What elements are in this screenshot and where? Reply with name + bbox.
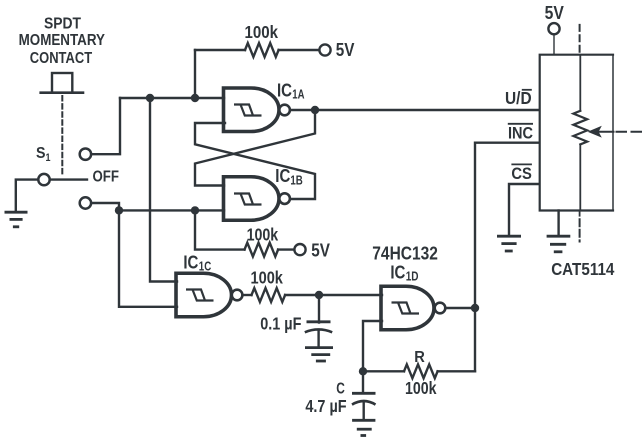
svg-text:IC: IC bbox=[275, 166, 290, 186]
wire IC1D output bbox=[446, 307, 475, 309]
svg-text:1D: 1D bbox=[406, 270, 419, 284]
terminal 5V CAT5114 bbox=[548, 23, 559, 34]
terminal 5V R2 bbox=[294, 244, 305, 255]
svg-text:IC: IC bbox=[183, 252, 198, 272]
switch S1 lower throw bbox=[80, 197, 91, 208]
potentiometer element bbox=[573, 56, 587, 211]
wire lower throw jog bbox=[92, 203, 119, 210]
svg-text:5V: 5V bbox=[545, 3, 564, 23]
op IC1A nand gate bbox=[224, 88, 290, 132]
wire reset net to IC1C lower input bbox=[119, 210, 177, 306]
wire set net to IC1C upper input bbox=[150, 98, 177, 282]
capacitor C 4.7uF bbox=[352, 371, 376, 419]
wiper arrow bbox=[588, 126, 614, 138]
svg-text:74HC132: 74HC132 bbox=[372, 243, 438, 263]
wire box Vss stub bbox=[557, 211, 559, 236]
ground G3 bbox=[497, 236, 521, 251]
label INC pin bbox=[508, 123, 533, 142]
overline CS bbox=[511, 163, 532, 165]
svg-text:100k: 100k bbox=[245, 22, 279, 42]
IC U2 CAT5114 box bbox=[540, 55, 613, 211]
svg-text:U/D: U/D bbox=[505, 88, 532, 108]
node junction set-right bbox=[191, 94, 199, 102]
svg-text:OFF: OFF bbox=[93, 169, 120, 186]
wire feedback to INC bbox=[475, 143, 538, 372]
overline INC bbox=[508, 123, 533, 125]
svg-text:100k: 100k bbox=[247, 224, 279, 244]
op IC1B nand gate bbox=[224, 177, 290, 221]
dashed wiper link right bbox=[617, 131, 644, 133]
svg-text:R: R bbox=[414, 349, 425, 366]
label IC1C bbox=[183, 252, 211, 273]
svg-text:SPDT: SPDT bbox=[44, 15, 81, 32]
resistor R1 100k pull-up bbox=[195, 43, 319, 57]
ground G5 bbox=[352, 420, 375, 435]
wire IC1A output to IC1B upper input bbox=[195, 110, 315, 186]
wire IC1A output to U/D bbox=[291, 109, 539, 111]
svg-text:MOMENTARY: MOMENTARY bbox=[19, 32, 105, 49]
wire reset net horizontal bbox=[119, 209, 224, 211]
node junction feedback RC bbox=[359, 367, 367, 375]
terminal 5V R1 bbox=[319, 44, 330, 55]
wire IC1B output to IC1A lower input bbox=[195, 123, 315, 199]
node junction reset-right bbox=[191, 206, 199, 214]
ground G1 bbox=[5, 212, 28, 227]
svg-text:1A: 1A bbox=[292, 87, 304, 101]
wire R1 to set node bbox=[194, 50, 196, 98]
op IC1D nand gate bbox=[381, 286, 445, 330]
capacitor 0.1uF bbox=[305, 295, 332, 347]
svg-text:CAT5114: CAT5114 bbox=[551, 259, 614, 279]
resistor R3 100k series bbox=[243, 288, 382, 302]
label U/D pin bbox=[505, 88, 532, 108]
dashed wiper link top bbox=[579, 25, 581, 54]
node junction RC bbox=[315, 291, 323, 299]
node junction IC1A output bbox=[311, 106, 319, 114]
label IC1A bbox=[277, 80, 305, 101]
label IC1D bbox=[390, 262, 418, 283]
wire IC1D lower input to RC node bbox=[363, 321, 382, 371]
wire pole to ground bbox=[16, 180, 38, 211]
svg-text:INC: INC bbox=[508, 123, 533, 142]
wire upper throw to latch set input bbox=[92, 98, 120, 154]
svg-text:1: 1 bbox=[46, 152, 51, 164]
svg-text:C: C bbox=[336, 380, 345, 397]
dashed wiper link bottom bbox=[579, 211, 581, 216]
wire set net horizontal bbox=[120, 97, 224, 99]
pushbutton actuator bbox=[41, 73, 83, 93]
switch S1 upper throw bbox=[80, 149, 91, 160]
label SPDT MOMENTARY CONTACT bbox=[19, 15, 105, 67]
svg-text:100k: 100k bbox=[251, 268, 284, 288]
svg-text:0.1 µF: 0.1 µF bbox=[260, 314, 301, 334]
ground G2 bbox=[305, 348, 333, 361]
op IC1C nand gate bbox=[176, 273, 242, 317]
node junction IC1D output bbox=[471, 304, 479, 312]
svg-text:S: S bbox=[36, 145, 46, 162]
overline D bbox=[522, 89, 532, 91]
svg-text:5V: 5V bbox=[336, 40, 355, 60]
switch S1 pole bbox=[38, 174, 87, 185]
ground G4 bbox=[547, 236, 571, 252]
label CS pin bbox=[511, 164, 532, 183]
label IC1B bbox=[275, 166, 303, 187]
svg-text:100k: 100k bbox=[405, 378, 437, 398]
svg-text:IC: IC bbox=[277, 80, 292, 100]
resistor R2 100k pull-up bbox=[195, 210, 294, 256]
svg-text:IC: IC bbox=[390, 262, 405, 282]
wire CS pin bbox=[509, 184, 538, 235]
svg-text:4.7 µF: 4.7 µF bbox=[305, 396, 346, 416]
node junction reset-left bbox=[115, 206, 123, 214]
resistor R 100k feedback bbox=[363, 364, 475, 378]
label S1 bbox=[36, 145, 51, 164]
wire 5V to box bbox=[553, 35, 555, 55]
svg-text:CONTACT: CONTACT bbox=[30, 50, 93, 67]
svg-text:1B: 1B bbox=[290, 173, 302, 187]
node junction set-left bbox=[146, 94, 154, 102]
svg-text:CS: CS bbox=[511, 164, 532, 183]
dashed mechanical link bbox=[61, 96, 63, 175]
svg-text:5V: 5V bbox=[311, 240, 330, 260]
